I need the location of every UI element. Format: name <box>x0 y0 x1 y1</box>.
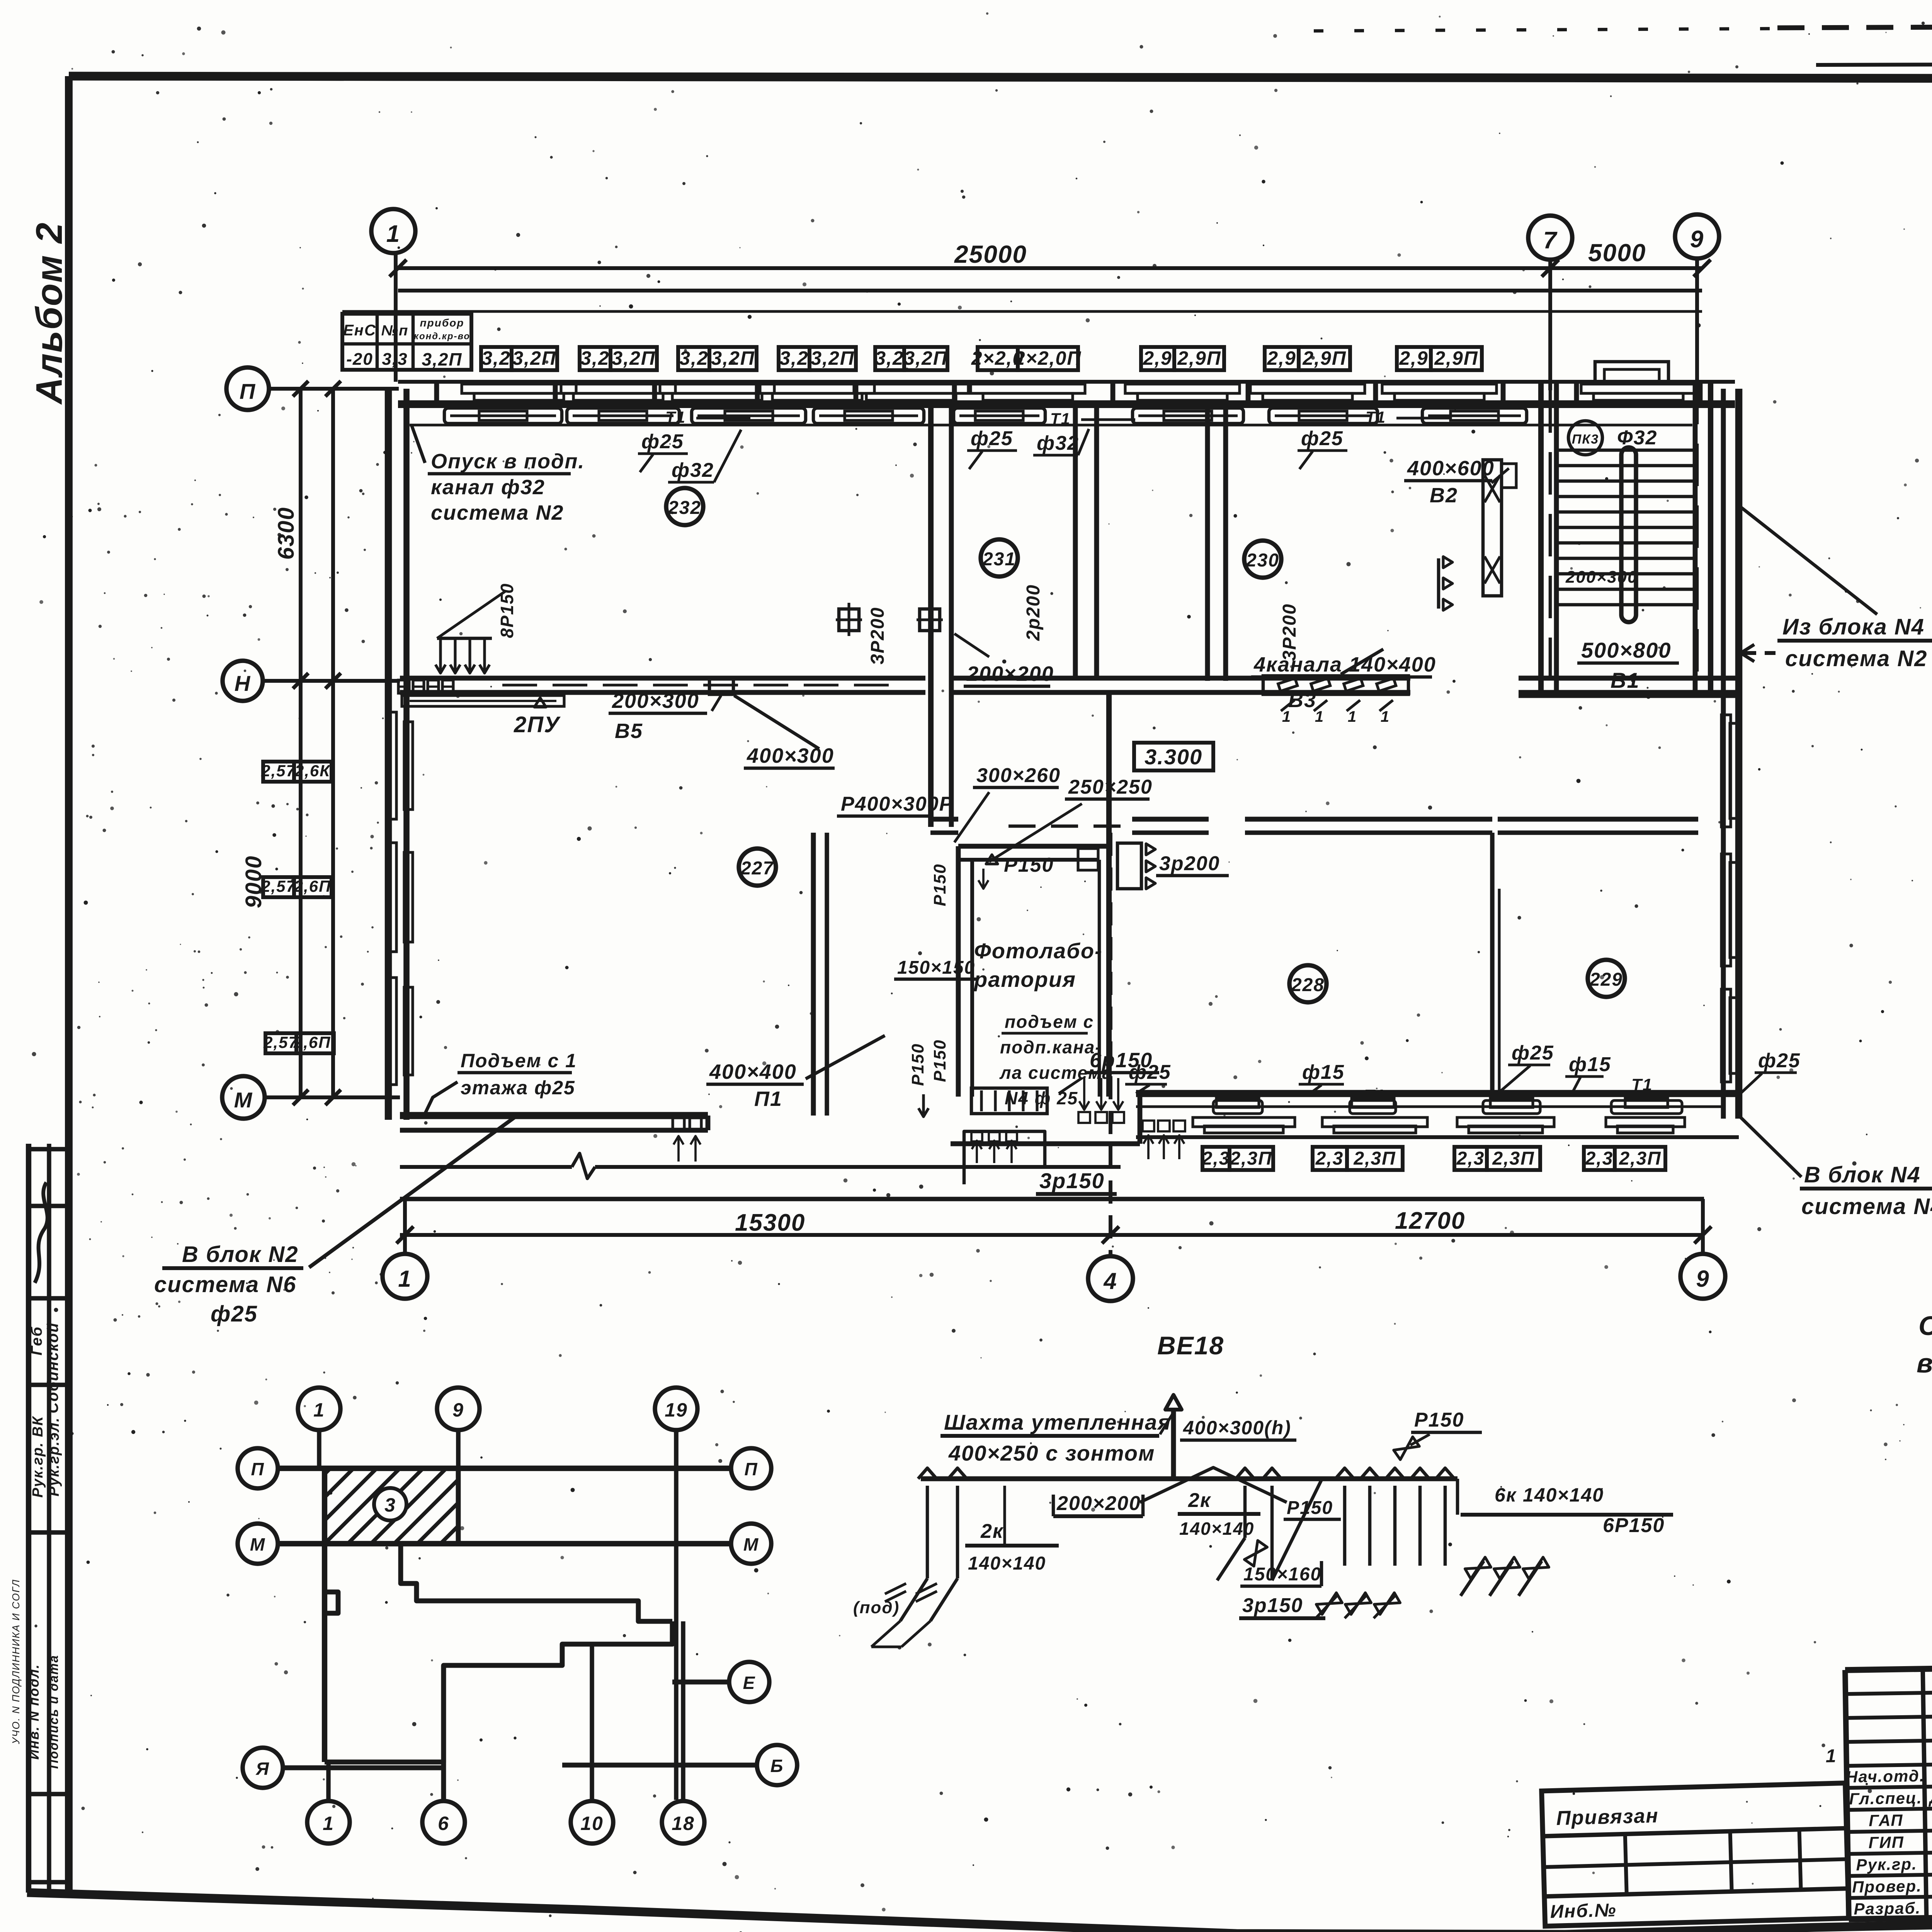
exterior wall on axis 1 with windows <box>386 389 413 1120</box>
exhaust grilles 3р200 <box>1117 843 1229 889</box>
duct wall in room 231 <box>1075 404 1097 678</box>
svg-text:2,9: 2,9 <box>1399 347 1429 369</box>
svg-text:№п: №п <box>381 323 409 339</box>
svg-text:Р150: Р150 <box>1414 1409 1464 1431</box>
svg-text:этажа ф25: этажа ф25 <box>461 1077 575 1099</box>
svg-text:400×250 с зонтом: 400×250 с зонтом <box>948 1441 1155 1465</box>
svg-text:3Р200: 3Р200 <box>1279 604 1300 661</box>
svg-text:система N4: система N4 <box>1801 1194 1932 1219</box>
привязан box <box>1542 1783 1849 1926</box>
partition wall rooms 228/229 <box>1492 833 1499 1094</box>
left dimension lines 6300 / 9000 <box>241 381 341 1105</box>
ventilation channel block B3 (4 канала 140х400) <box>1251 649 1436 725</box>
pipe callouts south wall <box>1125 1042 1801 1105</box>
svg-text:3,2П: 3,2П <box>512 347 556 369</box>
grille bank 6Р150 <box>971 1049 1185 1159</box>
svg-text:400×400: 400×400 <box>709 1060 797 1083</box>
key plan building outline <box>278 1431 730 1800</box>
grille bank with arrows (room 232) <box>398 583 517 693</box>
duct B2 left of stairwell <box>1404 457 1516 596</box>
svg-text:Т1: Т1 <box>665 408 686 426</box>
svg-text:1: 1 <box>1381 708 1390 725</box>
svg-text:6: 6 <box>438 1813 449 1834</box>
svg-text:Т1: Т1 <box>1364 1086 1385 1105</box>
room circle 227 <box>739 849 776 886</box>
svg-text:Опуск в подп.: Опуск в подп. <box>431 450 585 473</box>
svg-text:18: 18 <box>672 1813 695 1834</box>
svg-text:система N2: система N2 <box>431 501 564 524</box>
svg-text:Провер.: Провер. <box>1852 1877 1922 1896</box>
svg-text:150×160: 150×160 <box>1243 1564 1321 1585</box>
svg-text:228: 228 <box>1291 975 1325 995</box>
svg-text:система N6: система N6 <box>154 1272 296 1297</box>
svg-text:Рук.гр.эл.: Рук.гр.эл. <box>46 1417 62 1497</box>
svg-text:ВЕ18: ВЕ18 <box>1157 1331 1224 1360</box>
svg-text:ф32: ф32 <box>1037 432 1079 454</box>
svg-text:Б: Б <box>770 1756 784 1776</box>
room circle 231 <box>981 539 1018 577</box>
equipment mini-table <box>342 314 471 370</box>
partition wall rooms 231/230 <box>1207 404 1226 681</box>
svg-text:П: П <box>744 1459 758 1479</box>
svg-text:3,2П: 3,2П <box>612 347 655 369</box>
svg-text:Нач.отд.: Нач.отд. <box>1846 1767 1925 1786</box>
svg-text:3р150: 3р150 <box>1039 1168 1105 1193</box>
svg-text:2,57: 2,57 <box>263 1033 298 1051</box>
svg-text:140×140: 140×140 <box>968 1553 1046 1574</box>
axis circle Н (left) <box>223 661 400 701</box>
svg-text:2,3П: 2,3П <box>1492 1148 1534 1169</box>
svg-text:Гл.спец.: Гл.спец. <box>1849 1789 1922 1808</box>
svg-text:9: 9 <box>452 1399 464 1421</box>
svg-text:2,6П: 2,6П <box>294 877 332 895</box>
svg-text:В2: В2 <box>1430 484 1458 507</box>
svg-text:232: 232 <box>668 498 701 518</box>
svg-text:2,3: 2,3 <box>1585 1148 1614 1169</box>
svg-text:2,9П: 2,9П <box>1434 347 1478 369</box>
svg-text:Т1: Т1 <box>1631 1075 1653 1094</box>
exit arrows near room 227 <box>673 1118 701 1162</box>
exterior wall axis М <box>400 1094 1739 1179</box>
label Опуск в подп. канал ф32 система N2 <box>412 425 585 524</box>
svg-text:200×200: 200×200 <box>1056 1492 1141 1515</box>
svg-text:ф25: ф25 <box>641 430 684 453</box>
room circle 228 <box>1289 965 1327 1002</box>
svg-text:200×200: 200×200 <box>966 662 1054 685</box>
svg-text:1: 1 <box>386 221 400 247</box>
svg-text:2,6П.: 2,6П. <box>293 1033 336 1051</box>
svg-text:4: 4 <box>1103 1268 1117 1294</box>
left margin stamp column <box>10 1144 69 1893</box>
svg-text:2,9П: 2,9П <box>1302 347 1346 369</box>
svg-text:2,3: 2,3 <box>1202 1148 1230 1169</box>
svg-text:3,2П: 3,2П <box>422 349 462 369</box>
corridor wall axis Н <box>400 678 1739 692</box>
svg-text:200×300: 200×300 <box>612 689 699 713</box>
axis circle 9 (bottom) <box>1680 1199 1725 1299</box>
svg-text:229: 229 <box>1589 969 1623 990</box>
svg-text:3,2: 3,2 <box>875 347 904 369</box>
svg-text:В блок N2: В блок N2 <box>182 1242 299 1267</box>
svg-text:1: 1 <box>398 1266 412 1292</box>
axis circle М (left) <box>222 1076 400 1119</box>
svg-text:6Р150: 6Р150 <box>1603 1514 1665 1537</box>
svg-text:3,3: 3,3 <box>382 350 408 369</box>
svg-text:3,2: 3,2 <box>679 347 709 369</box>
svg-text:500×800: 500×800 <box>1581 638 1672 662</box>
axis circle 4 (bottom) <box>1088 833 1133 1301</box>
svg-text:2,3П: 2,3П <box>1230 1148 1272 1169</box>
label 3Р200 rotated near B2 <box>1279 557 1452 661</box>
label В блок N2 система N6 ф25 <box>154 1114 520 1327</box>
svg-text:3р200: 3р200 <box>1159 852 1220 875</box>
axis circle 1 (top) <box>371 209 415 382</box>
schematic ВЕ18 <box>853 1331 1673 1662</box>
svg-text:Привязан: Привязан <box>1556 1804 1659 1830</box>
svg-text:Е: Е <box>743 1673 756 1693</box>
svg-text:В3: В3 <box>1288 689 1316 712</box>
svg-text:Инв. N подл.: Инв. N подл. <box>26 1664 42 1760</box>
svg-text:400×300(h): 400×300(h) <box>1183 1417 1291 1439</box>
svg-text:2,9: 2,9 <box>1267 347 1296 369</box>
room 227 east wall <box>813 833 827 1116</box>
svg-text:2ПУ: 2ПУ <box>514 712 561 737</box>
svg-text:3,2П: 3,2П <box>811 347 854 369</box>
svg-text:Подъем с 1: Подъем с 1 <box>461 1050 577 1071</box>
label Р150 with marker (corridor) <box>986 854 1054 876</box>
svg-text:1: 1 <box>1348 708 1357 725</box>
svg-text:3,2: 3,2 <box>481 347 511 369</box>
svg-text:400×300: 400×300 <box>747 744 834 767</box>
svg-text:10: 10 <box>580 1813 604 1834</box>
radiators under top windows <box>410 408 1692 425</box>
svg-text:ф25: ф25 <box>1129 1061 1171 1083</box>
svg-text:N4 ф 25: N4 ф 25 <box>1005 1088 1078 1108</box>
svg-text:6300: 6300 <box>274 507 299 560</box>
svg-text:300×260: 300×260 <box>976 764 1061 787</box>
svg-text:Р150: Р150 <box>930 1039 949 1082</box>
svg-text:Инб.№: Инб.№ <box>1550 1900 1617 1922</box>
svg-text:Р400×300Р: Р400×300Р <box>841 793 953 815</box>
svg-text:Рук.гр. ВК: Рук.гр. ВК <box>30 1416 46 1498</box>
svg-text:-20: -20 <box>346 350 373 369</box>
svg-text:ф15: ф15 <box>1569 1053 1611 1076</box>
svg-text:П: П <box>240 379 256 403</box>
svg-text:2,57: 2,57 <box>261 762 296 780</box>
stairwell between axes 7 and 9 <box>1519 362 1739 696</box>
room circle 229 <box>1588 960 1625 997</box>
svg-text:15300: 15300 <box>735 1209 805 1236</box>
svg-text:5000: 5000 <box>1588 239 1646 267</box>
partition wall rooms 232/231 and duct shaft <box>931 404 951 827</box>
svg-text:П1: П1 <box>754 1087 782 1111</box>
heating riser symbols <box>836 603 943 636</box>
svg-text:Т1: Т1 <box>1366 408 1386 426</box>
label 200x200 and 2р200 grilles <box>954 634 1054 686</box>
svg-text:Подпись и дата: Подпись и дата <box>46 1655 61 1769</box>
svg-text:19: 19 <box>665 1399 688 1421</box>
svg-text:3р150: 3р150 <box>1242 1594 1303 1617</box>
svg-text:3,2: 3,2 <box>779 347 809 369</box>
svg-text:система N2: система N2 <box>1785 646 1927 671</box>
pipe callouts top wall <box>638 408 1451 482</box>
svg-text:подъем с: подъем с <box>1005 1012 1094 1032</box>
svg-text:конд.кр-во: конд.кр-во <box>414 331 470 342</box>
svg-text:6к 140×140: 6к 140×140 <box>1495 1484 1604 1506</box>
svg-text:2×2,0П: 2×2,0П <box>1014 347 1082 369</box>
svg-text:2к: 2к <box>1188 1489 1211 1512</box>
svg-text:ГИП: ГИП <box>1868 1833 1904 1852</box>
svg-text:канал ф32: канал ф32 <box>431 476 545 499</box>
axis circle 9 (top) <box>1675 214 1719 692</box>
window spec boxes (top wall) <box>481 347 1482 370</box>
svg-text:3: 3 <box>384 1494 396 1516</box>
svg-text:Т1: Т1 <box>1050 410 1071 428</box>
svg-text:подп.кана-: подп.кана- <box>1000 1037 1102 1057</box>
exterior wall on axis П with windows <box>398 382 1735 404</box>
svg-text:2,3: 2,3 <box>1456 1148 1485 1169</box>
svg-text:(под): (под) <box>853 1598 900 1617</box>
svg-text:ф25: ф25 <box>1758 1049 1801 1072</box>
level mark 3.300 <box>1134 743 1213 770</box>
svg-text:Разраб.: Разраб. <box>1854 1899 1921 1918</box>
svg-text:3.300: 3.300 <box>1145 745 1202 769</box>
label 400x300 <box>734 696 835 768</box>
svg-text:Собинской: Собинской <box>44 1322 61 1413</box>
corridor wall above rooms 228/229 <box>930 819 1698 833</box>
svg-text:3,2П: 3,2П <box>904 347 947 369</box>
exterior wall right of axis 9 <box>1721 389 1739 1119</box>
svg-text:Р150: Р150 <box>1004 854 1054 876</box>
svg-text:В блок N4: В блок N4 <box>1804 1162 1921 1187</box>
svg-text:9: 9 <box>1690 226 1704 253</box>
svg-text:2,57: 2,57 <box>261 877 296 895</box>
svg-text:ф25: ф25 <box>1301 427 1344 450</box>
svg-text:1: 1 <box>313 1399 325 1421</box>
svg-text:Н: Н <box>235 671 251 696</box>
svg-text:Из блока N4: Из блока N4 <box>1782 614 1925 639</box>
svg-text:Ф32: Ф32 <box>1617 427 1657 449</box>
grille 3Р150 (south band) <box>964 1131 1117 1194</box>
svg-text:ф15: ф15 <box>1302 1061 1345 1083</box>
svg-text:ратория: ратория <box>973 967 1076 992</box>
svg-text:В5: В5 <box>615 719 643 743</box>
svg-text:Схемы вытяженых систем ВЕ1: Схемы вытяженых систем ВЕ18, ВЕ19 и ВЕ20 <box>1918 1311 1932 1341</box>
svg-text:ф25: ф25 <box>1512 1042 1554 1064</box>
svg-text:230: 230 <box>1246 550 1279 571</box>
svg-text:9: 9 <box>1696 1266 1709 1292</box>
svg-text:М: М <box>743 1534 759 1554</box>
label 200x300 / В5 <box>609 679 733 743</box>
svg-text:1: 1 <box>323 1813 334 1834</box>
svg-text:прибор: прибор <box>420 317 464 329</box>
label 400x400 П1 <box>706 1036 885 1111</box>
svg-text:М: М <box>234 1088 253 1112</box>
svg-text:2р200: 2р200 <box>1023 584 1044 641</box>
svg-text:2,9П: 2,9П <box>1177 347 1221 369</box>
label Из блока N4 система N2 <box>1740 506 1932 671</box>
svg-text:227: 227 <box>740 858 774 879</box>
window spec boxes (south wall) <box>1202 1147 1665 1170</box>
svg-text:2,3П: 2,3П <box>1353 1148 1396 1169</box>
left window spec boxes <box>261 762 336 1053</box>
label В блок N4 система N4 <box>1741 1117 1932 1219</box>
svg-text:Р150: Р150 <box>908 1043 927 1086</box>
labels 300x260 / 250x250 <box>954 764 1153 862</box>
svg-text:Я: Я <box>255 1759 270 1779</box>
svg-text:Рук.гр.: Рук.гр. <box>1856 1855 1917 1874</box>
key plan hatched block 3 <box>255 1468 609 1544</box>
top dimension line 25000/5000 <box>389 239 1711 291</box>
svg-text:М: М <box>250 1534 265 1554</box>
radiator strip under wall Н <box>402 696 564 706</box>
axis circle 1 (bottom) <box>383 1199 427 1299</box>
svg-text:400×600: 400×600 <box>1407 457 1495 480</box>
svg-text:Фотолабо-: Фотолабо- <box>974 939 1103 963</box>
svg-text:Шахта утепленная: Шахта утепленная <box>944 1410 1171 1434</box>
svg-text:12700: 12700 <box>1395 1207 1465 1234</box>
svg-text:150×150: 150×150 <box>897 957 975 978</box>
svg-text:2,6К: 2,6К <box>294 762 331 780</box>
svg-text:ЕнС: ЕнС <box>343 322 376 339</box>
svg-text:ваны для варианта со скатн: ваны для варианта со скатной крышей. . <box>1917 1348 1932 1378</box>
svg-text:Альбом 2: Альбом 2 <box>29 222 70 405</box>
svg-text:ф25: ф25 <box>971 427 1013 450</box>
svg-text:П: П <box>251 1459 264 1479</box>
svg-text:ф25: ф25 <box>211 1301 258 1327</box>
svg-text:8Р150: 8Р150 <box>497 583 517 638</box>
svg-text:1: 1 <box>1825 1746 1837 1766</box>
room circle 232 <box>666 488 703 525</box>
svg-text:2,3П: 2,3П <box>1619 1148 1661 1169</box>
axis circle П (left) <box>226 367 399 410</box>
svg-text:231: 231 <box>982 549 1016 570</box>
key plan axis circles <box>238 1388 797 1844</box>
svg-text:Геб: Геб <box>28 1326 45 1355</box>
room circle 230 <box>1244 541 1281 578</box>
svg-text:3Р200: 3Р200 <box>867 607 888 665</box>
svg-text:25000: 25000 <box>954 240 1027 268</box>
svg-text:ПК3: ПК3 <box>1572 432 1599 447</box>
note about systems ВЕ18 ВЕ19 ВЕ20 <box>1917 1311 1932 1378</box>
label Подъем с 1 этажа ф25 <box>424 1050 577 1115</box>
svg-text:ГАП: ГАП <box>1869 1811 1903 1830</box>
svg-text:2,3: 2,3 <box>1315 1148 1344 1169</box>
title block <box>1824 1658 1932 1920</box>
svg-text:140×140: 140×140 <box>1179 1519 1254 1539</box>
svg-text:2к: 2к <box>980 1520 1004 1543</box>
svg-text:УЧО. N ПОДЛИННИКА И СОГЛ: УЧО. N ПОДЛИННИКА И СОГЛ <box>10 1579 22 1744</box>
photo laboratory room <box>894 692 1113 1117</box>
svg-text:ф32: ф32 <box>672 459 714 481</box>
axis circle 7 (top) <box>1528 216 1572 692</box>
svg-text:200×300: 200×300 <box>1565 568 1638 587</box>
svg-text:3,2П: 3,2П <box>711 347 755 369</box>
svg-text:Р150: Р150 <box>930 864 949 906</box>
svg-text:3,2: 3,2 <box>580 347 610 369</box>
bottom dimension lines 15300 / 12700 <box>396 1199 1711 1243</box>
supply duct П1 drop (Р400х300Р) <box>837 692 953 827</box>
label 2ПУ with marker <box>514 698 561 737</box>
svg-text:7: 7 <box>1543 227 1558 254</box>
svg-text:2,9: 2,9 <box>1143 347 1172 369</box>
